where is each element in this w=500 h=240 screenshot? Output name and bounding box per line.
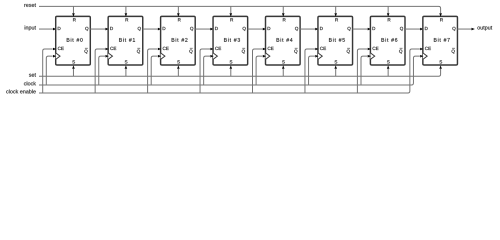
pin label S (Bit #5)	[335, 60, 338, 63]
wire: clock-enable riser and stub to CE pin (Bit #5)	[305, 49, 315, 93]
pin label Q (Bit #0)	[85, 27, 88, 31]
clock chevron (Bit #1)	[108, 53, 112, 60]
label Bit #4	[277, 38, 293, 42]
wire: clock-enable riser and stub to CE pin (Bit #3)	[200, 49, 210, 93]
pin label D (Bit #5)	[320, 27, 323, 30]
arrowhead into S pin (Bit #2)	[177, 65, 180, 68]
wire: clock-enable riser and stub to CE pin (Bit #4)	[253, 49, 263, 93]
pin label S (Bit #3)	[230, 60, 233, 63]
arrowhead into R pin (Bit #2)	[177, 13, 180, 16]
wire: clock riser and stub to clock pin (Bit #1)	[99, 56, 105, 85]
arrowhead into CE pin (Bit #3)	[210, 48, 213, 51]
arrowhead: output	[472, 28, 475, 31]
pin label CE (Bit #4)	[268, 47, 274, 50]
wire: Q of Bit #0 to D of Bit #1	[90, 28, 105, 30]
pin label R (Bit #4)	[283, 18, 286, 21]
wire: clock-enable riser and stub to CE pin (Bit #1)	[95, 49, 105, 93]
pin label D (Bit #6)	[372, 27, 375, 30]
label Bit #0	[67, 38, 83, 42]
arrowhead into D pin (Bit #6)	[368, 28, 371, 31]
arrowhead into clock pin (Bit #0)	[53, 55, 56, 58]
pin label Q-bar (Bit #0)	[84, 48, 87, 53]
wire: clock riser and stub to clock pin (Bit #6)	[361, 56, 367, 85]
arrowhead into clock pin (Bit #3)	[210, 55, 213, 58]
wire: set riser to S pin (Bit #0)	[72, 69, 74, 76]
pin label D (Bit #4)	[268, 27, 271, 30]
arrowhead into D pin (Bit #1)	[105, 28, 108, 31]
pin label Q (Bit #5)	[347, 27, 350, 31]
wire: reset bus along the top, ends turning down into Bit #7 R riser	[39, 6, 441, 13]
arrowhead into CE pin (Bit #6)	[368, 48, 371, 51]
wire: Q of Bit #4 to D of Bit #5	[300, 28, 315, 30]
wire: reset riser to R pin (Bit #1)	[125, 6, 127, 13]
pin label R (Bit #3)	[230, 18, 233, 21]
pin label Q-bar (Bit #2)	[189, 48, 192, 53]
pin label D (Bit #2)	[163, 27, 166, 30]
wire: Bit #7 Q to output	[457, 28, 471, 30]
label Bit #3	[224, 38, 240, 42]
wire: Q of Bit #5 to D of Bit #6	[353, 28, 368, 30]
arrowhead into S pin (Bit #1)	[125, 65, 128, 68]
wire: reset riser to R pin (Bit #3)	[230, 6, 232, 13]
net label: clock enable	[6, 89, 36, 93]
pin label CE (Bit #2)	[163, 47, 169, 50]
clock chevron (Bit #4)	[266, 53, 270, 60]
pin label S (Bit #7)	[439, 60, 442, 63]
pin label R (Bit #7)	[440, 18, 443, 21]
pin label Q (Bit #2)	[190, 27, 193, 31]
arrowhead into CE pin (Bit #2)	[158, 48, 161, 51]
arrowhead into D pin (Bit #3)	[210, 28, 213, 31]
arrowhead into clock pin (Bit #2)	[158, 55, 161, 58]
wire: clock riser and stub to clock pin (Bit #3)	[204, 56, 210, 85]
wire: clock riser and stub to clock pin (Bit #5)	[309, 56, 315, 85]
wire: clock riser and stub to clock pin (Bit #2)	[151, 56, 157, 85]
pin label Q (Bit #3)	[243, 27, 246, 31]
wire: Q of Bit #2 to D of Bit #3	[195, 28, 210, 30]
pin label Q-bar (Bit #1)	[137, 48, 140, 53]
arrowhead into D pin (Bit #5)	[315, 28, 318, 31]
pin label CE (Bit #6)	[373, 47, 379, 50]
clock chevron (Bit #7)	[423, 53, 427, 60]
pin label R (Bit #2)	[178, 18, 181, 21]
arrowhead into R pin (Bit #6)	[387, 13, 390, 16]
arrowhead into S pin (Bit #4)	[282, 65, 285, 68]
wire: clock bus, ends turning up into Bit #7 clock riser	[39, 56, 420, 85]
pin label D (Bit #1)	[110, 27, 113, 30]
wire: set bus, ends turning up into Bit #7 S riser	[39, 69, 441, 76]
clock chevron (Bit #5)	[318, 53, 322, 60]
label Bit #1	[119, 38, 135, 42]
net label: set	[29, 73, 36, 77]
arrowhead into CE pin (Bit #1)	[105, 48, 108, 51]
pin label Q-bar (Bit #5)	[347, 48, 350, 53]
label Bit #7	[434, 38, 450, 42]
pin label D (Bit #0)	[58, 27, 61, 30]
wire: set riser to S pin (Bit #2)	[177, 69, 179, 76]
wire: clock riser and stub to clock pin (Bit #0)	[46, 56, 52, 85]
net label: clock	[24, 81, 36, 85]
arrowhead into Bit #0 D pin	[53, 28, 56, 31]
pin label CE (Bit #3)	[215, 47, 221, 50]
arrowhead into clock pin (Bit #4)	[263, 55, 266, 58]
wire: clock-enable riser and stub to CE pin (Bit #6)	[357, 49, 367, 93]
pin label D (Bit #3)	[215, 27, 218, 30]
pin label Q (Bit #4)	[295, 27, 298, 31]
net label: input	[25, 26, 36, 31]
wire: clock-enable riser and stub to CE pin (Bit #2)	[148, 49, 158, 93]
arrowhead into S pin (Bit #3)	[230, 65, 233, 68]
wire: input to Bit #0 D pin	[39, 28, 53, 30]
label Bit #6	[381, 38, 397, 42]
arrowhead into clock pin (Bit #1)	[105, 55, 108, 58]
D flip-flop Bit #7 body	[423, 16, 458, 65]
arrowhead into R pin (Bit #1)	[125, 13, 128, 16]
pin label CE (Bit #0)	[58, 47, 64, 50]
D flip-flop Bit #5 body	[318, 16, 353, 65]
pin label Q (Bit #7)	[452, 27, 455, 31]
net label: output	[477, 26, 492, 31]
D flip-flop Bit #6 body	[370, 16, 405, 65]
arrowhead into clock pin (Bit #7)	[420, 55, 423, 58]
wire: set riser to S pin (Bit #3)	[230, 69, 232, 76]
arrowhead into CE pin (Bit #4)	[263, 48, 266, 51]
pin label Q-bar (Bit #4)	[294, 48, 297, 53]
wire: Q of Bit #6 to D of Bit #7	[405, 28, 420, 30]
arrowhead into CE pin (Bit #7)	[420, 48, 423, 51]
pin label Q (Bit #1)	[138, 27, 141, 31]
wire: set riser to S pin (Bit #6)	[387, 69, 389, 76]
D flip-flop Bit #0 body	[56, 16, 91, 65]
wire: reset riser to R pin (Bit #4)	[282, 6, 284, 13]
arrowhead into R pin (Bit #3)	[230, 13, 233, 16]
arrowhead into S pin (Bit #0)	[72, 65, 75, 68]
arrowhead into R pin (Bit #5)	[334, 13, 337, 16]
D flip-flop Bit #1 body	[108, 16, 143, 65]
D flip-flop Bit #2 body	[161, 16, 196, 65]
arrowhead into R pin (Bit #7)	[439, 13, 442, 16]
pin label CE (Bit #7)	[425, 47, 431, 50]
arrowhead into S pin (Bit #5)	[334, 65, 337, 68]
pin label Q-bar (Bit #6)	[399, 48, 402, 53]
arrowhead into S pin (Bit #6)	[387, 65, 390, 68]
arrowhead into CE pin (Bit #0)	[53, 48, 56, 51]
pin label S (Bit #6)	[387, 60, 390, 63]
label Bit #5	[329, 38, 345, 42]
arrowhead into R pin (Bit #4)	[282, 13, 285, 16]
pin label CE (Bit #5)	[320, 47, 326, 50]
wire: set riser to S pin (Bit #4)	[282, 69, 284, 76]
pin label Q-bar (Bit #7)	[452, 48, 455, 53]
arrowhead into D pin (Bit #4)	[263, 28, 266, 31]
wire: set riser to S pin (Bit #1)	[125, 69, 127, 76]
pin label R (Bit #5)	[335, 18, 338, 21]
pin label D (Bit #7)	[425, 27, 428, 30]
pin label Q-bar (Bit #3)	[242, 48, 245, 53]
clock chevron (Bit #0)	[56, 53, 60, 60]
pin label R (Bit #1)	[126, 18, 129, 21]
arrowhead into D pin (Bit #7)	[420, 28, 423, 31]
pin label Q (Bit #6)	[400, 27, 403, 31]
wire: reset riser to R pin (Bit #0)	[72, 6, 74, 13]
arrowhead into S pin (Bit #7)	[439, 65, 442, 68]
arrowhead into D pin (Bit #2)	[158, 28, 161, 31]
wire: set riser to S pin (Bit #5)	[335, 69, 337, 76]
arrowhead into CE pin (Bit #5)	[315, 48, 318, 51]
pin label R (Bit #6)	[388, 18, 391, 21]
wire: clock-enable riser and stub to CE pin (Bit #0)	[43, 49, 53, 93]
arrowhead into clock pin (Bit #5)	[315, 55, 318, 58]
clock chevron (Bit #6)	[370, 53, 374, 60]
pin label R (Bit #0)	[73, 18, 76, 21]
pin label S (Bit #2)	[177, 60, 180, 63]
arrowhead into clock pin (Bit #6)	[368, 55, 371, 58]
arrowhead into R pin (Bit #0)	[72, 13, 75, 16]
wire: reset riser to R pin (Bit #5)	[335, 6, 337, 13]
wire: clock-enable bus, ends turning up into Bit #7 CE riser	[39, 49, 420, 93]
wire: reset riser to R pin (Bit #2)	[177, 6, 179, 13]
wire: clock riser and stub to clock pin (Bit #4)	[256, 56, 262, 85]
wire: reset riser to R pin (Bit #6)	[387, 6, 389, 13]
wire: Q of Bit #3 to D of Bit #4	[248, 28, 263, 30]
pin label S (Bit #0)	[72, 60, 75, 63]
net label: reset	[24, 3, 36, 7]
D flip-flop Bit #3 body	[213, 16, 248, 65]
clock chevron (Bit #2)	[161, 53, 165, 60]
clock chevron (Bit #3)	[213, 53, 217, 60]
pin label S (Bit #4)	[282, 60, 285, 63]
pin label CE (Bit #1)	[110, 47, 116, 50]
D flip-flop Bit #4 body	[266, 16, 301, 65]
pin label S (Bit #1)	[125, 60, 128, 63]
wire: Q of Bit #1 to D of Bit #2	[143, 28, 158, 30]
label Bit #2	[172, 38, 188, 42]
